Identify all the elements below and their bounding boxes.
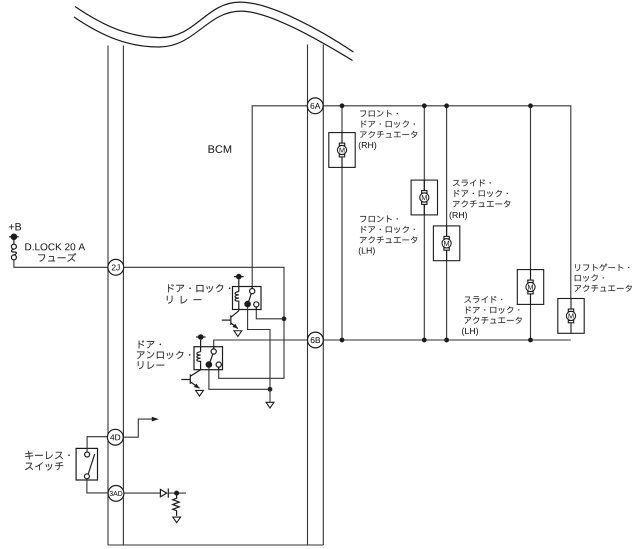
wire 6A left into BCM xyxy=(252,106,307,289)
resistor R1 xyxy=(173,493,180,516)
junction xyxy=(340,103,345,108)
label door unlock relay xyxy=(139,340,161,348)
wire to ground xyxy=(269,389,271,402)
power stub relay K2 coil xyxy=(196,335,206,339)
wire fuse to 2J xyxy=(14,260,108,267)
harness break squiggle xyxy=(74,2,354,60)
connector pin 6A xyxy=(307,98,323,114)
connector pin 3AD xyxy=(108,486,124,502)
wire 3AD to diode xyxy=(124,492,160,494)
wire switch to 3AD xyxy=(87,479,108,493)
fuse label フューズ xyxy=(38,253,76,262)
junction xyxy=(444,103,449,108)
junction ground bus xyxy=(268,387,273,392)
wire motor4 branch xyxy=(530,106,532,340)
motor actuator M3 xyxy=(433,226,459,261)
power stub relay K1 coil xyxy=(234,274,244,278)
label keyless switch xyxy=(25,451,70,459)
BCM label xyxy=(209,145,232,153)
label liftgate lock actuator xyxy=(575,264,629,271)
ground resistor xyxy=(173,517,181,523)
junction xyxy=(340,338,345,343)
relay K1 door lock xyxy=(233,279,262,309)
wire +B to fuse xyxy=(13,237,15,244)
wire motor3 branch xyxy=(446,106,448,340)
wire 2J to relay NC contacts xyxy=(123,267,284,378)
wire branch to lock relay NC xyxy=(256,307,284,319)
wire motor2 branch xyxy=(423,106,425,340)
BCM connector strip right xyxy=(308,45,324,546)
ground relay common bus xyxy=(266,402,274,408)
wire K2 common to ground xyxy=(209,367,270,389)
label slide door lock actuator RH xyxy=(453,179,491,186)
connector pin 6B xyxy=(308,332,324,348)
keyless switch SW xyxy=(76,448,97,480)
junction xyxy=(282,316,287,321)
label door lock relay xyxy=(168,284,230,293)
junction xyxy=(528,338,533,343)
label front door lock actuator RH xyxy=(360,110,398,117)
wire 6B left into BCM xyxy=(214,340,308,349)
fuse D.LOCK 20A xyxy=(11,244,16,260)
junction xyxy=(422,338,427,343)
ground Q1 emitter xyxy=(234,331,242,337)
junction xyxy=(174,491,179,496)
transistor Q2 xyxy=(181,370,200,389)
relay K2 door unlock xyxy=(194,340,223,370)
motor actuator M5 xyxy=(558,299,584,334)
motor actuator M4 xyxy=(517,270,543,305)
wire motor1 branch xyxy=(341,106,343,340)
motor actuator M2 xyxy=(411,180,437,215)
node +B xyxy=(9,223,21,230)
wire 4D output arrow xyxy=(123,419,153,437)
BCM bottom edge xyxy=(108,544,323,546)
wire diode to node xyxy=(168,492,186,494)
wire 6A to actuators xyxy=(323,106,571,299)
junction xyxy=(444,338,449,343)
ground Q2 emitter xyxy=(196,390,204,396)
wire K1 common to ground bus xyxy=(248,307,270,390)
diode D1 xyxy=(160,489,168,498)
wire 6B to actuators xyxy=(323,339,571,341)
BCM connector strip left xyxy=(108,46,123,546)
junction xyxy=(528,103,533,108)
transistor Q1 xyxy=(222,310,239,329)
label slide door lock actuator LH xyxy=(464,296,502,303)
motor actuator M1 xyxy=(329,133,355,168)
label front door lock actuator LH xyxy=(360,215,398,222)
fuse value label xyxy=(25,243,85,250)
connector pin 2J xyxy=(108,259,124,275)
wire switch to 4D xyxy=(87,437,108,452)
junction xyxy=(422,103,427,108)
connector pin 4D xyxy=(107,429,123,445)
